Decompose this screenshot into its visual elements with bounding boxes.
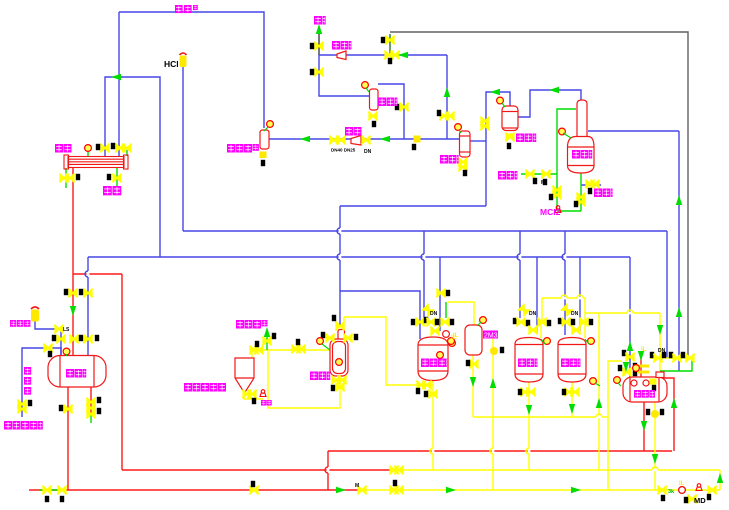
wire tank drain <box>643 402 645 451</box>
valve bottom right 2 <box>687 495 696 504</box>
vessel K small mixer <box>465 325 482 355</box>
wire acid meter to reactor1 <box>344 317 433 385</box>
valve x440 <box>436 289 445 298</box>
arrow up vent <box>316 24 322 34</box>
wire tank feed red <box>640 352 642 377</box>
valve x486 <box>480 117 489 126</box>
pump bottom right <box>679 487 686 494</box>
wire top blue from HX to vessel B <box>119 12 264 128</box>
green stems for instruments <box>67 88 622 386</box>
valve y55 pair <box>384 51 393 60</box>
svg-text:HCl: HCl <box>164 59 179 69</box>
vessel L esterifier 1 <box>515 338 543 383</box>
svg-text:DN: DN <box>364 149 372 155</box>
wire condensate stub <box>581 184 601 186</box>
arrow down x529 <box>526 405 532 415</box>
arrow left y90 <box>549 87 559 93</box>
valve vessel E bottom <box>505 133 514 142</box>
valve HX bottom left pair <box>59 174 68 183</box>
label cooling water <box>498 171 517 180</box>
wire y451 loop <box>328 450 672 452</box>
pump meas tank <box>651 410 659 418</box>
svg-text:IL: IL <box>453 333 459 339</box>
wire vent stem <box>318 32 320 55</box>
inst HX <box>85 145 92 152</box>
vessel E acid condenser 2 <box>502 106 518 131</box>
arrow up x678 <box>676 307 682 317</box>
circle inside reactor1 <box>437 352 444 359</box>
wire y274 branch <box>73 273 122 275</box>
arrow up x447 <box>444 87 450 97</box>
valve x447 <box>439 112 448 121</box>
valve y490 at 362 <box>357 486 366 495</box>
wire HCl drop <box>182 67 184 231</box>
valve bottom right 3 <box>707 486 716 495</box>
valve x404 <box>399 103 408 112</box>
valve brine <box>43 344 52 353</box>
valve HX top left <box>100 144 109 153</box>
valve x557 <box>552 186 561 195</box>
wire y141 stub <box>470 140 486 142</box>
inst esterifier1 <box>544 338 551 345</box>
wire dark stub valve to vacuum <box>389 34 391 55</box>
label acetic tank <box>66 369 86 378</box>
label condenser <box>55 144 72 153</box>
valve esterifier2 bottom <box>564 388 573 397</box>
valve vapour line <box>262 337 271 346</box>
node jump x520/y257 <box>517 254 521 260</box>
node jump x328/y470 <box>325 467 329 473</box>
svg-text:IL: IL <box>679 481 685 487</box>
wire y470 yellow part <box>400 469 720 471</box>
wire HX circle stem <box>87 152 89 156</box>
arrow up x630 <box>627 341 633 351</box>
inst vessel F <box>559 128 566 135</box>
arrow right y490 red <box>336 487 346 493</box>
wire drop to tank <box>87 257 89 356</box>
valve small y174 <box>541 170 550 179</box>
label recovery tank <box>103 186 121 195</box>
node jump x424/y257 <box>421 254 425 260</box>
wire HX left stub <box>65 168 67 188</box>
label residue receiver <box>227 144 259 153</box>
valve y490 mid <box>389 486 398 495</box>
expander symbol <box>31 307 39 322</box>
node jump x340/y231 <box>337 228 341 234</box>
arrow down x641 <box>638 351 644 361</box>
wire x520 drop <box>519 231 521 318</box>
arrow left y55 <box>398 52 408 58</box>
bell drain bottom right <box>696 484 702 491</box>
valve HX top right pair <box>115 144 124 153</box>
wire x679 drop <box>678 131 680 371</box>
valve meter bottom <box>331 376 340 385</box>
HCl inlet symbol <box>180 53 187 67</box>
wire HX riser left <box>105 77 160 257</box>
valve diag reactor1 <box>422 304 435 317</box>
label still <box>572 150 592 159</box>
label top vent <box>175 5 198 13</box>
label to vacuum <box>332 41 351 50</box>
wire still bottom stem <box>580 173 582 211</box>
valve vessel2 bottom <box>469 360 478 369</box>
wire x608 drop <box>608 361 622 490</box>
valve reactor1 mid <box>430 327 439 336</box>
wire y131 <box>588 130 679 132</box>
wire green y211 <box>557 210 581 212</box>
valve tank outlet <box>63 405 72 414</box>
valve y139 after ejector <box>361 136 370 145</box>
valve vessel B bottom <box>260 152 267 159</box>
valve tank bottom stack <box>86 398 95 407</box>
wire vessel2 bottom <box>472 355 474 417</box>
wire HX right stub <box>116 168 118 190</box>
svg-text:DN: DN <box>529 311 537 317</box>
label condensate <box>594 189 613 198</box>
label acid condenser2 <box>516 134 536 143</box>
label brine vertical <box>24 367 31 395</box>
bell drain still <box>555 206 561 213</box>
label acid metering <box>310 372 330 381</box>
wire reactor1 bottom drop <box>432 381 434 470</box>
arrow down x655 <box>652 454 658 464</box>
valve cooling water <box>525 170 534 179</box>
wire transfer v2 to v1 <box>448 302 474 325</box>
wire y417 header <box>473 416 608 418</box>
arrow up x674 red <box>671 398 677 408</box>
wire x424 drop <box>423 231 425 318</box>
valve vent stem <box>314 42 323 51</box>
valve row y339 <box>56 335 65 344</box>
arrow down x73 <box>70 306 76 316</box>
valve still condensate <box>585 180 594 189</box>
vessel D acid condenser 1 <box>460 131 471 157</box>
wire funnel drain <box>244 392 263 399</box>
wire x580 drop <box>579 257 581 331</box>
wire drain run <box>268 350 340 408</box>
vessel I acid metering <box>330 330 348 377</box>
wire y206 branch <box>340 205 486 207</box>
inst vessel B <box>267 121 274 128</box>
inst vessel C <box>362 82 369 89</box>
arrow left y139 b <box>380 136 390 142</box>
arrow up x720 <box>717 473 723 483</box>
valve meter top <box>335 322 344 331</box>
valve meter left <box>325 334 334 343</box>
wire vessel3 drop <box>528 382 530 470</box>
valve manifold row <box>650 352 654 358</box>
svg-text:LS: LS <box>63 327 70 333</box>
wire HX riser to top <box>118 12 120 156</box>
label esterifier2 <box>561 359 580 368</box>
valve row esterifier1 <box>513 318 517 324</box>
label vapour go <box>236 320 268 329</box>
funnel H filter <box>235 358 254 393</box>
valve HX bottom right <box>112 174 121 183</box>
inst vessel D <box>455 124 462 131</box>
wire tank stack stub <box>90 414 92 423</box>
wire condenser loop right <box>518 90 581 117</box>
tank N acid measuring tank <box>623 372 667 402</box>
vessel C evaporator <box>370 89 379 110</box>
wire y470 red part <box>122 469 392 471</box>
valve meas tank top <box>622 350 626 356</box>
arrow left y77 <box>111 74 121 80</box>
wire x447 drop <box>446 55 448 139</box>
valve x581 <box>576 193 585 202</box>
wire x660 drop <box>659 313 661 371</box>
valve row esterifier2 <box>558 318 562 324</box>
wire expander line <box>35 321 61 356</box>
svg-text:MCl2: MCl2 <box>540 207 561 217</box>
node jump x433/y451 <box>430 448 434 454</box>
label vent small <box>314 16 326 25</box>
arrow down vessel2 <box>470 377 476 387</box>
node jump x565/y257 <box>562 254 566 260</box>
valve drain run riser <box>335 383 344 392</box>
label expander <box>10 320 30 327</box>
arrow down x644 <box>641 421 647 431</box>
wire x440 drop <box>439 257 441 331</box>
inst vessel2 left <box>448 338 455 345</box>
valve y490 left pair <box>42 486 51 495</box>
node jump y470/x655 <box>652 467 658 471</box>
node jump x88/y274 <box>85 271 89 277</box>
valve row reactor1 <box>411 319 415 325</box>
arrow left y92 <box>490 89 500 95</box>
node jump x340/y257 <box>337 254 341 260</box>
wire y291 to vessel1 <box>340 291 420 339</box>
inst meas tank circles <box>631 380 637 386</box>
arrow down x660 <box>657 325 663 335</box>
wire evaporator out <box>378 84 404 139</box>
wire x537 drop <box>536 257 538 333</box>
wire vacuum line y55 <box>319 54 447 56</box>
wire funnel stub <box>251 350 253 358</box>
wire HX stub2 <box>126 150 128 156</box>
arrow up x679 <box>676 195 682 205</box>
label vessel2 block <box>483 331 498 339</box>
wire cooling water line <box>521 173 557 175</box>
node jump x529/y451 <box>526 448 530 454</box>
label reboiler <box>345 127 362 136</box>
wire green seg bottom left <box>40 489 64 491</box>
pump vessel2 <box>490 347 498 355</box>
wire tank outlet <box>67 387 69 490</box>
valve funnel drain <box>242 390 251 399</box>
valve x320 below y55 <box>314 68 323 77</box>
wire meter stem <box>343 317 345 331</box>
svg-text:MD: MD <box>694 496 706 505</box>
arrow right y490 yellow <box>446 487 456 493</box>
wire vessel3 feed stem <box>540 324 542 338</box>
inst reactor1 a <box>443 331 450 338</box>
valve pair y139 <box>329 136 338 145</box>
wire main header y257 <box>88 256 630 258</box>
wire green drop x557 <box>557 109 576 211</box>
wire x340 drop <box>339 206 341 326</box>
valve y139 yellow square <box>414 136 421 143</box>
wire y139 main <box>269 138 460 140</box>
svg-text:2M3: 2M3 <box>484 333 498 340</box>
wire meter tank pump drop <box>654 402 656 490</box>
valve x88 <box>83 289 92 298</box>
wire transfer y298 <box>542 297 585 299</box>
label esterifier1 <box>518 359 537 368</box>
inst meter I <box>317 338 324 345</box>
arrow down meas inlet <box>623 362 629 372</box>
svg-text:DN: DN <box>658 348 666 354</box>
wire x599 drop <box>598 313 600 470</box>
valve vacuum line <box>385 36 394 45</box>
wire vessel4 drop <box>571 382 573 417</box>
label evaporator <box>378 98 397 107</box>
node jump y298/x580 <box>577 295 583 299</box>
valve reactor1 bottom <box>416 381 425 390</box>
node jump x493/y451 <box>490 448 494 454</box>
svg-text:IL: IL <box>641 347 647 353</box>
heat exchanger E-1 condenser <box>64 155 128 169</box>
valve y350 second <box>291 345 300 354</box>
svg-text:DN: DN <box>571 311 579 317</box>
wire x328 drop <box>327 451 329 490</box>
arrow left y139 <box>300 136 310 142</box>
wire tank bottom stub <box>90 387 92 416</box>
vessel B residue receiver <box>260 130 269 149</box>
valve esterifier1 bottom <box>520 388 529 397</box>
wire green manifold <box>660 358 692 371</box>
wire condenser loop left <box>486 92 510 206</box>
wire x565 drop <box>564 231 566 335</box>
bell drain funnel <box>260 390 266 397</box>
valve expander line <box>54 325 63 334</box>
valve y470 <box>389 466 398 475</box>
svg-text:DN40 DN25: DN40 DN25 <box>331 148 356 153</box>
valve vessel D bottom <box>458 158 467 167</box>
wire pump drop x493 <box>492 338 494 490</box>
label measuring tank <box>634 390 655 398</box>
ejector 2 <box>351 136 361 146</box>
wire x542 drop <box>541 298 543 324</box>
circle inside meter I <box>336 359 343 366</box>
tank G acetic acid tank <box>48 356 106 388</box>
arrow up vapour <box>264 327 270 337</box>
wire y313 header <box>585 312 660 314</box>
wire x667 drop <box>666 231 668 358</box>
wire right riser <box>719 470 721 490</box>
valve brine return <box>17 400 26 409</box>
svg-text:DN: DN <box>430 311 438 317</box>
inst vessel K <box>480 317 487 324</box>
arrow right y490 yellow2 <box>571 487 581 493</box>
label brine supply return <box>4 421 43 430</box>
wire funnel line y350 <box>252 349 330 351</box>
valve x73 <box>68 289 77 298</box>
wire brine line <box>22 348 61 417</box>
node jump y298/x564 <box>561 295 567 299</box>
label ditch <box>261 400 272 406</box>
label acid condenser1 <box>440 155 459 164</box>
valve meter right <box>343 334 352 343</box>
arrow up x599 <box>596 398 602 408</box>
wire x630 drop to measuring tank <box>629 257 631 377</box>
wire x585 drop <box>584 298 586 338</box>
svg-text:M: M <box>541 180 545 186</box>
wire gray main top <box>390 32 688 358</box>
wire v1 feed stub <box>445 302 447 318</box>
valve vessel C bottom <box>368 112 377 121</box>
gauge rungs meas tank <box>638 365 649 368</box>
valve bottom right 1 <box>657 486 666 495</box>
arrow up pump x493 <box>490 378 496 388</box>
node jump y313/x630 <box>627 310 633 314</box>
wire HX to tank <box>72 168 74 356</box>
inst vessel E <box>497 97 504 104</box>
vessel J synthesis reactor <box>418 337 448 381</box>
label synthesis reactor <box>421 359 447 368</box>
wire y490 yellow part <box>366 489 720 491</box>
svg-text:3k: 3k <box>668 489 675 495</box>
svg-text:M: M <box>355 483 359 489</box>
valve y490 at 254 <box>249 486 258 495</box>
wire meter arrow stem <box>266 336 268 350</box>
vessel F distillation still with column neck <box>568 100 595 173</box>
wire header y231 <box>183 230 667 232</box>
ejector 1 vacuum <box>337 51 346 60</box>
arrow down x572 <box>569 404 575 414</box>
valve y350 first <box>249 346 258 355</box>
wire x122 drop <box>121 274 123 470</box>
wire measuring tank loop <box>663 378 674 451</box>
label filter residue go <box>184 383 226 392</box>
node jump y417/x599 <box>596 414 602 418</box>
vessel M esterifier 2 <box>558 338 586 383</box>
inst reactor1 b <box>449 340 456 347</box>
wire y490 red part <box>29 489 358 491</box>
inst tank G <box>63 348 70 355</box>
inst esterifier2 <box>588 338 595 345</box>
wire x319 drop <box>319 55 369 96</box>
wire manifold y358 <box>650 357 692 359</box>
